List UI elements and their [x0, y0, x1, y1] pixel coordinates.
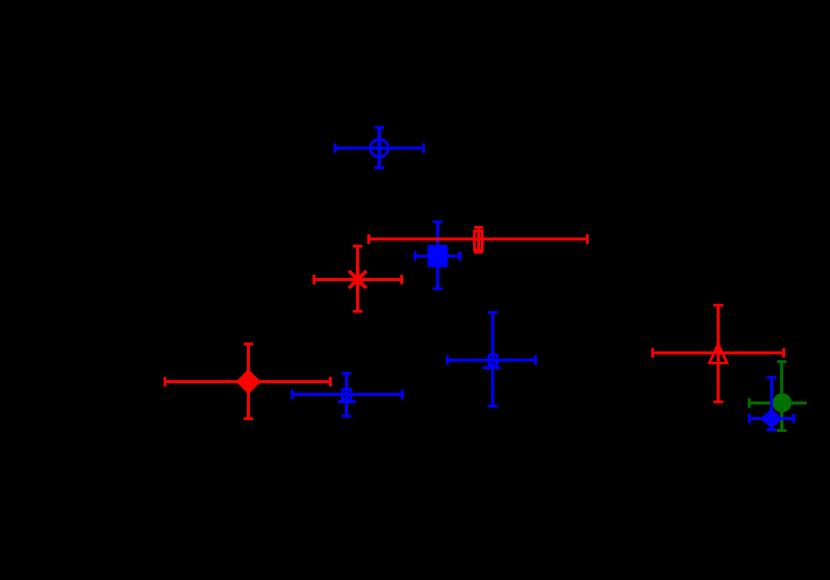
P10 vertical error top cap	[767, 376, 777, 379]
P3 horizontal error bar	[415, 255, 460, 258]
P7 marker: open square	[489, 355, 497, 365]
P10 horizontal error left cap	[748, 414, 751, 424]
P5 horizontal error bar	[165, 380, 330, 383]
P9 marker: filled circle	[773, 393, 792, 412]
P1 vertical error bar	[378, 127, 381, 167]
P6 marker pedestal bar	[338, 400, 356, 403]
P2 marker: tall open rectangle (double square)	[474, 231, 482, 250]
P4 marker: asterisk spokes	[346, 278, 370, 281]
P1 marker: open circle	[370, 139, 388, 157]
P3 vertical error bottom cap	[433, 287, 443, 290]
data point P6: blue open square with pedestal, xy error bars	[292, 374, 402, 417]
P7 vertical error top cap	[488, 311, 498, 314]
P10 horizontal error bar	[749, 417, 794, 420]
P3 vertical error top cap	[433, 220, 443, 223]
P7 vertical error bar	[491, 313, 494, 407]
P9 horizontal error left cap	[748, 398, 751, 408]
data point P3: blue filled square with xy error bars	[415, 222, 460, 289]
P4 vertical error top cap	[353, 245, 363, 248]
P7 horizontal error right cap	[534, 355, 537, 365]
P6 marker: open square	[342, 389, 350, 399]
P3 horizontal error left cap	[414, 251, 417, 261]
P4 horizontal error right cap	[400, 275, 403, 285]
P9 vertical error bar	[780, 362, 783, 431]
P6 horizontal error left cap	[291, 390, 294, 400]
P9 vertical error bottom cap	[777, 429, 787, 432]
P2 vertical error bottom cap	[474, 251, 483, 254]
data point P9: green filled circle with xy error bars	[749, 362, 807, 431]
P2 vertical error bar	[477, 227, 480, 252]
P7 horizontal error bar	[447, 359, 535, 362]
P7 vertical error bottom cap	[488, 405, 498, 408]
P8 marker: open triangle	[709, 344, 727, 363]
P4 vertical error bottom cap	[353, 310, 363, 313]
P7 horizontal error left cap	[446, 355, 449, 365]
P1 horizontal error left cap	[334, 143, 337, 153]
P10 vertical error bottom cap	[767, 428, 777, 431]
P3 marker: filled square	[428, 245, 448, 268]
P3 horizontal error right cap	[459, 251, 462, 261]
P8 horizontal error bar	[653, 351, 784, 354]
P10 vertical error bar	[770, 378, 773, 430]
P6 vertical error bottom cap	[342, 415, 352, 418]
data point P7: blue open square with pedestal, xy error bars	[447, 313, 535, 407]
P1 vertical error top cap	[374, 126, 384, 129]
P4 horizontal error bar	[314, 278, 402, 281]
P5 vertical error top cap	[244, 342, 254, 345]
P6 horizontal error bar	[292, 393, 402, 396]
P5 horizontal error right cap	[329, 377, 332, 387]
P6 horizontal error right cap	[401, 390, 404, 400]
P8 vertical error bar	[717, 305, 720, 402]
P7 marker pedestal bar	[483, 366, 501, 369]
P1 horizontal error right cap	[422, 143, 425, 153]
data point P10: blue open diamond with inner circle, xy error bars	[749, 378, 794, 430]
P9 vertical error top cap	[777, 360, 787, 363]
P2 horizontal error bar	[369, 238, 588, 241]
data point P2: red open square with pedestal, xy error bars	[369, 227, 588, 252]
P10 marker: open diamond	[762, 410, 780, 427]
P10 marker: inner open circle	[768, 415, 776, 423]
P6 vertical error top cap	[342, 372, 352, 375]
P8 horizontal error right cap	[782, 348, 785, 358]
P4 vertical error bar	[356, 246, 359, 311]
P3 vertical error bar	[436, 222, 439, 289]
P5 vertical error bottom cap	[244, 417, 254, 420]
P10 horizontal error right cap	[792, 414, 795, 424]
P5 vertical error bar	[247, 344, 250, 419]
P4 horizontal error left cap	[312, 275, 315, 285]
P8 vertical error bottom cap	[713, 400, 723, 403]
P5 horizontal error left cap	[164, 377, 167, 387]
P8 vertical error top cap	[713, 304, 723, 307]
P8 horizontal error left cap	[651, 348, 654, 358]
data point P1: blue open circle (circle-plus) with xy error bars	[335, 127, 424, 167]
data point P4: red asterisk with xy error bars	[314, 246, 402, 311]
P9 horizontal error bar	[749, 402, 807, 405]
P6 vertical error bar	[345, 374, 348, 417]
P2 horizontal error right cap	[586, 234, 589, 244]
P2 vertical error top cap	[474, 226, 483, 229]
P1 horizontal error bar	[335, 147, 424, 150]
P1 vertical error bottom cap	[374, 166, 384, 169]
data point P5: red filled diamond with xy error bars	[165, 344, 330, 419]
data point P8: red open triangle with xy error bars	[653, 305, 784, 402]
P2 horizontal error left cap	[367, 234, 370, 244]
P5 marker: filled diamond	[236, 369, 261, 394]
